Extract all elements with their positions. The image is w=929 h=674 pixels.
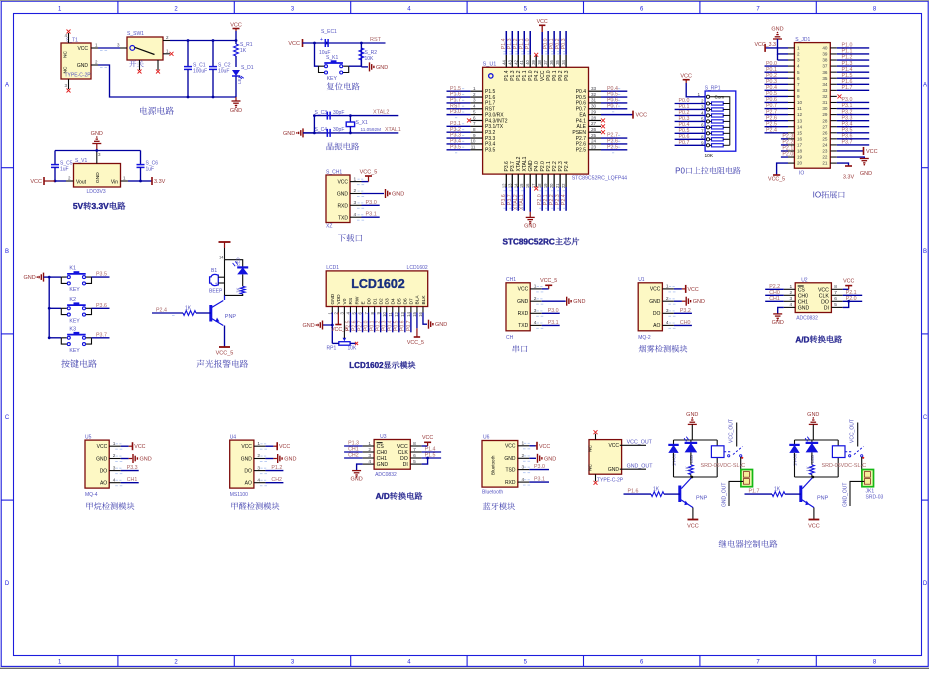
svg-text:3: 3 bbox=[257, 465, 260, 471]
pin 1 VCC bbox=[518, 445, 530, 447]
pin 5 DI bbox=[410, 463, 421, 465]
svg-text:GND: GND bbox=[241, 456, 253, 462]
svg-text:5: 5 bbox=[797, 70, 800, 75]
svg-text:24: 24 bbox=[591, 139, 597, 144]
svg-text:RP1: RP1 bbox=[327, 346, 337, 352]
svg-text:GND: GND bbox=[96, 456, 108, 462]
svg-text:2: 2 bbox=[790, 290, 793, 296]
JD1 pin 18 bbox=[788, 150, 794, 152]
ground GND top bbox=[809, 423, 818, 425]
pin 3 no-connect bottom of T1 bbox=[68, 79, 70, 89]
wire contact to connector bbox=[862, 457, 865, 473]
svg-text:D6: D6 bbox=[403, 298, 409, 304]
pin 1 stub bbox=[350, 181, 362, 183]
JD1 pin 30 bbox=[830, 108, 837, 110]
pin3 V0 to potentiometer bbox=[343, 313, 345, 338]
header S_JD1 IO expansion bbox=[794, 43, 830, 169]
base resistor 1K and net P1.7 bbox=[785, 493, 801, 495]
ground GND left bbox=[302, 128, 304, 137]
svg-text:VCC: VCC bbox=[636, 113, 648, 119]
svg-text:12: 12 bbox=[797, 112, 803, 117]
svg-text:TXD: TXD bbox=[338, 216, 348, 222]
connector S_CH1 download bbox=[326, 175, 350, 223]
svg-text:GND: GND bbox=[23, 275, 35, 281]
JD1 pin 28 bbox=[830, 120, 837, 122]
key K2 bbox=[49, 307, 61, 309]
connector S_T1 TYPE-C-2P bbox=[61, 43, 91, 79]
wire LED to resistor bbox=[242, 275, 244, 287]
capacitor S_C5 1uF bbox=[54, 151, 56, 165]
JD1 pin 20 bbox=[788, 162, 794, 164]
svg-text:P2.5: P2.5 bbox=[607, 144, 618, 150]
svg-text:VCC_5: VCC_5 bbox=[768, 177, 785, 183]
wire XTAL1 bottom bbox=[304, 132, 399, 134]
svg-text:P3.5: P3.5 bbox=[485, 148, 496, 154]
svg-text:XZ: XZ bbox=[326, 224, 332, 230]
svg-text:S_C4: S_C4 bbox=[315, 127, 328, 133]
svg-text:10: 10 bbox=[797, 100, 803, 105]
svg-text:1: 1 bbox=[697, 92, 700, 97]
svg-text:GND: GND bbox=[860, 171, 872, 177]
relay coil SRD-05VDC-SL-C bbox=[832, 446, 845, 458]
svg-text:D2: D2 bbox=[378, 298, 384, 304]
svg-text:22: 22 bbox=[822, 155, 828, 160]
svg-text:P1.0: P1.0 bbox=[525, 38, 531, 49]
svg-text:33: 33 bbox=[822, 88, 828, 93]
VCC_3.3 power at top-left pin1 bbox=[765, 47, 788, 49]
svg-text:GND: GND bbox=[350, 477, 362, 483]
svg-text:D0: D0 bbox=[366, 298, 372, 304]
svg-text:P3.7: P3.7 bbox=[842, 140, 853, 146]
svg-text:18: 18 bbox=[797, 149, 803, 154]
JD1 pin 39 bbox=[830, 53, 837, 55]
svg-text:1: 1 bbox=[534, 284, 537, 290]
pin15 BLA to VCC_5 bbox=[416, 313, 418, 329]
JD1 pin 24 bbox=[830, 144, 837, 146]
svg-text:GND: GND bbox=[284, 457, 296, 463]
pin 8 VCC wire bbox=[422, 445, 428, 447]
wire net P0.6 bbox=[404, 313, 406, 333]
pin 3 TSD bbox=[518, 469, 530, 471]
VCC wire to common pin bbox=[686, 83, 705, 97]
pin22 wire to GND right bbox=[837, 157, 865, 158]
svg-text:B: B bbox=[5, 249, 9, 255]
pin 3 DO bbox=[662, 312, 674, 314]
svg-text:GND_OUT: GND_OUT bbox=[843, 483, 849, 507]
svg-text:VCC: VCC bbox=[134, 444, 145, 450]
svg-text:14: 14 bbox=[219, 255, 224, 260]
svg-text:LCD1602: LCD1602 bbox=[349, 361, 384, 370]
svg-text:P2.4: P2.4 bbox=[564, 161, 570, 172]
svg-text:5V: 5V bbox=[73, 201, 84, 211]
wire contact to connector bbox=[741, 457, 744, 473]
svg-text:3.3V: 3.3V bbox=[154, 179, 166, 185]
pin 6 DO wire net P2.0 bbox=[843, 300, 863, 302]
svg-text:37: 37 bbox=[822, 64, 828, 69]
pin 2 CH0 bbox=[363, 451, 375, 453]
methane detector module U5 MQ-4 bbox=[85, 434, 152, 509]
svg-text:Vout: Vout bbox=[76, 180, 87, 186]
ground GND top bbox=[688, 423, 697, 425]
svg-text:NC: NC bbox=[588, 445, 594, 452]
svg-text:S_V1: S_V1 bbox=[75, 158, 87, 164]
svg-text:GND: GND bbox=[649, 299, 661, 305]
svg-text:GND: GND bbox=[524, 224, 536, 230]
switch pin right top to rail bbox=[163, 40, 170, 42]
svg-text:38: 38 bbox=[822, 58, 828, 63]
svg-text:VCC: VCC bbox=[230, 23, 242, 29]
svg-text:DO: DO bbox=[400, 456, 408, 462]
svg-text:VCC_3.3: VCC_3.3 bbox=[755, 42, 777, 48]
svg-text:VCC_5: VCC_5 bbox=[216, 351, 234, 357]
green connector bbox=[741, 470, 753, 487]
svg-text:A/D: A/D bbox=[795, 335, 809, 344]
relay LED bbox=[690, 440, 692, 443]
svg-text:4: 4 bbox=[790, 302, 793, 308]
network resistor element 5 net P0.3 bbox=[675, 120, 706, 122]
svg-text:3: 3 bbox=[701, 104, 704, 109]
svg-text:P0.7: P0.7 bbox=[679, 140, 690, 146]
connector TYPE-C-2P output bbox=[589, 440, 622, 475]
svg-text:P0.7: P0.7 bbox=[607, 103, 618, 109]
svg-text:27: 27 bbox=[822, 124, 828, 129]
svg-text:44: 44 bbox=[501, 59, 506, 64]
JD1 pin 34 bbox=[830, 83, 837, 85]
svg-text:MQ-2: MQ-2 bbox=[638, 335, 651, 341]
svg-text:V0: V0 bbox=[342, 298, 348, 304]
power bar GND top bbox=[219, 241, 231, 243]
wire relay common up VCC_OUT bbox=[857, 423, 859, 447]
JD1 pin 6 bbox=[788, 77, 794, 79]
title 按键电路 bbox=[61, 359, 96, 367]
wire top rail switch to VCC node bbox=[170, 40, 236, 42]
svg-text:S_D1: S_D1 bbox=[241, 65, 254, 71]
svg-text:3: 3 bbox=[666, 308, 669, 314]
pin 7 CLK bbox=[410, 451, 421, 453]
switch bottom pins no-connect bbox=[139, 60, 141, 70]
svg-text:+: + bbox=[215, 281, 218, 286]
svg-text:S_SW1: S_SW1 bbox=[127, 31, 144, 37]
base resistor 1K bbox=[196, 312, 211, 314]
GND power at top-left bbox=[773, 38, 782, 40]
svg-text:GND: GND bbox=[330, 293, 336, 304]
green connector bbox=[862, 470, 874, 487]
svg-text:LED: LED bbox=[236, 257, 241, 266]
svg-text:RXD: RXD bbox=[505, 480, 516, 486]
svg-text:K3: K3 bbox=[69, 326, 76, 332]
svg-text:GND: GND bbox=[608, 467, 620, 473]
svg-text:NC: NC bbox=[63, 66, 69, 73]
network resistor element 9 net P0.7 bbox=[675, 144, 706, 146]
JD1 pin 25 bbox=[830, 138, 837, 140]
svg-text:3.3V: 3.3V bbox=[843, 175, 855, 181]
relay switch contact bbox=[728, 455, 730, 457]
svg-text:2: 2 bbox=[354, 188, 357, 194]
wire XTAL2 top bbox=[314, 115, 398, 117]
pin 1 VCC bbox=[530, 288, 542, 290]
svg-text:P3.3: P3.3 bbox=[127, 465, 138, 471]
svg-text:TYPE-C-2P: TYPE-C-2P bbox=[597, 478, 624, 484]
svg-text:15: 15 bbox=[797, 130, 803, 135]
svg-text:35: 35 bbox=[555, 59, 560, 64]
pin 7 CLK bbox=[831, 294, 842, 296]
svg-text:GND: GND bbox=[91, 131, 103, 137]
JD1 pin 16 bbox=[788, 138, 794, 140]
pin2 wire to GND bbox=[362, 193, 385, 195]
svg-text:CH1: CH1 bbox=[798, 299, 808, 305]
svg-text:32: 32 bbox=[822, 94, 828, 99]
network resistor element 7 net P0.5 bbox=[675, 132, 706, 134]
svg-text:1: 1 bbox=[666, 284, 669, 290]
svg-text:NC: NC bbox=[63, 51, 69, 58]
svg-text:LCD1602: LCD1602 bbox=[407, 265, 428, 271]
pin 4 TXD bbox=[530, 324, 542, 326]
svg-text:GND: GND bbox=[693, 299, 705, 305]
pin 3 CH1 bbox=[363, 457, 375, 459]
svg-text:34: 34 bbox=[561, 59, 566, 64]
svg-text:P2.4: P2.4 bbox=[561, 194, 567, 205]
ground GND left bbox=[43, 273, 45, 282]
svg-text:VCC_5: VCC_5 bbox=[360, 170, 378, 176]
svg-text:LDO3V3: LDO3V3 bbox=[87, 189, 106, 195]
JD1 pin 9 bbox=[788, 95, 794, 97]
network resistor element 8 net P0.6 bbox=[675, 138, 706, 140]
svg-text:P1.7: P1.7 bbox=[842, 85, 853, 91]
svg-text:5: 5 bbox=[701, 116, 704, 121]
svg-text:Bluetooth: Bluetooth bbox=[491, 455, 496, 475]
resistor network S_RP1 bbox=[705, 91, 736, 151]
svg-text:D1: D1 bbox=[372, 298, 378, 304]
JD1 pin 27 bbox=[830, 126, 837, 128]
svg-text:38: 38 bbox=[537, 59, 542, 64]
svg-text:DO: DO bbox=[244, 468, 252, 474]
svg-text:D: D bbox=[5, 581, 10, 587]
wire net P0.5 bbox=[398, 313, 400, 333]
svg-text:+: + bbox=[320, 37, 323, 43]
svg-text:5: 5 bbox=[473, 109, 476, 114]
svg-text:GND_OUT: GND_OUT bbox=[722, 483, 728, 507]
svg-text:13: 13 bbox=[797, 118, 803, 123]
svg-text:P3.0: P3.0 bbox=[450, 109, 461, 115]
pin1 GND wire bbox=[323, 313, 333, 326]
bottom rail bbox=[795, 476, 839, 478]
svg-text:25: 25 bbox=[822, 136, 828, 141]
JD1 pin 33 bbox=[830, 89, 837, 91]
svg-text:29: 29 bbox=[591, 109, 597, 114]
svg-text:P2.4: P2.4 bbox=[766, 127, 777, 133]
svg-text:25: 25 bbox=[591, 133, 597, 138]
svg-text:BEEP: BEEP bbox=[209, 289, 223, 295]
bluetooth module U6 bbox=[482, 435, 556, 510]
svg-text:GND: GND bbox=[772, 320, 784, 326]
svg-text:TSD: TSD bbox=[506, 467, 516, 473]
svg-text:10K: 10K bbox=[348, 346, 358, 352]
wire net P0.3 bbox=[386, 313, 388, 333]
svg-text:32: 32 bbox=[591, 92, 597, 97]
switch pin right bottom no-connect bbox=[163, 53, 170, 55]
wire to net P3.6 bbox=[92, 307, 110, 309]
svg-text:2: 2 bbox=[666, 296, 669, 302]
svg-text:VCC: VCC bbox=[688, 287, 699, 293]
svg-text:GND: GND bbox=[807, 412, 819, 418]
vertical bus bbox=[48, 277, 50, 338]
svg-text:P3.1: P3.1 bbox=[534, 477, 545, 483]
ADC U2 ADC0832 bbox=[795, 283, 831, 313]
svg-text:VCC: VCC bbox=[608, 443, 619, 449]
svg-text:S_U1: S_U1 bbox=[483, 62, 497, 68]
svg-text:VCC: VCC bbox=[680, 74, 692, 80]
svg-text:GND: GND bbox=[95, 172, 101, 183]
svg-text:3: 3 bbox=[368, 453, 371, 459]
svg-text:U4: U4 bbox=[230, 434, 237, 440]
svg-text:RS: RS bbox=[348, 298, 354, 305]
svg-text:TYPE-C-2P: TYPE-C-2P bbox=[65, 73, 92, 79]
svg-text:SRD-05VDC-SL-C: SRD-05VDC-SL-C bbox=[822, 463, 867, 469]
svg-text:42: 42 bbox=[513, 59, 518, 64]
svg-text:40: 40 bbox=[525, 59, 530, 64]
JD1 pin 1 bbox=[788, 47, 794, 49]
svg-text:6: 6 bbox=[413, 453, 416, 459]
svg-text:28: 28 bbox=[822, 118, 828, 123]
svg-text:CH: CH bbox=[506, 335, 514, 341]
JD1 pin 8 bbox=[788, 89, 794, 91]
svg-text:U6: U6 bbox=[483, 435, 490, 441]
wire net P2.7 bbox=[362, 313, 364, 333]
pin 4 AO bbox=[662, 324, 674, 326]
svg-text:P2.4: P2.4 bbox=[156, 308, 167, 314]
svg-text:CH2: CH2 bbox=[271, 477, 282, 483]
svg-text:9: 9 bbox=[473, 133, 476, 138]
svg-text:STC89C52RC: STC89C52RC bbox=[502, 238, 554, 247]
svg-text:1K: 1K bbox=[653, 487, 660, 493]
svg-text:8: 8 bbox=[701, 134, 704, 139]
formaldehyde detector module U4 MS1100 bbox=[230, 434, 297, 509]
svg-text:30pF: 30pF bbox=[333, 127, 344, 133]
svg-text:CH1: CH1 bbox=[769, 296, 780, 302]
svg-text:24: 24 bbox=[822, 143, 828, 148]
svg-text:7: 7 bbox=[701, 128, 704, 133]
svg-text:AO: AO bbox=[100, 481, 107, 487]
svg-text:2: 2 bbox=[473, 92, 476, 97]
svg-text:DI: DI bbox=[403, 462, 408, 468]
svg-text:AO: AO bbox=[245, 481, 252, 487]
svg-text:P3.0: P3.0 bbox=[366, 200, 377, 206]
svg-text:VCC: VCC bbox=[518, 287, 529, 293]
capacitor S_C6 1uF bbox=[140, 151, 142, 165]
svg-text:P3.0: P3.0 bbox=[534, 464, 545, 470]
svg-text:PNP: PNP bbox=[696, 496, 708, 502]
wire net P0.2 bbox=[380, 313, 382, 333]
pin 7 CLK wire net P1.4 bbox=[422, 451, 442, 453]
JD1 pin 35 bbox=[830, 77, 837, 79]
pin 6 DO bbox=[831, 300, 842, 302]
svg-text:VCC: VCC bbox=[30, 179, 42, 185]
pin 4 RXD bbox=[518, 481, 530, 483]
svg-text:DO: DO bbox=[821, 299, 829, 305]
svg-text:16: 16 bbox=[797, 136, 803, 141]
pin 1 VCC bbox=[662, 288, 674, 290]
svg-text:8: 8 bbox=[797, 88, 800, 93]
svg-text:1: 1 bbox=[473, 86, 476, 91]
pin3 wire net P3.0 bbox=[362, 204, 380, 206]
svg-text:IO: IO bbox=[799, 171, 804, 177]
svg-text:2: 2 bbox=[368, 447, 371, 453]
pin4 wire net P3.1 bbox=[362, 216, 380, 218]
MCU S_U1 STC89C52RC_LQFP44 body bbox=[483, 67, 589, 174]
svg-text:GND: GND bbox=[283, 131, 295, 137]
svg-text:2: 2 bbox=[797, 52, 800, 57]
svg-text:VCC_5: VCC_5 bbox=[407, 340, 424, 346]
pin 2 GND bbox=[662, 300, 674, 302]
regulator S_V1 LDO3V3 bbox=[74, 164, 121, 188]
svg-text:1N4007: 1N4007 bbox=[672, 451, 677, 466]
svg-text:4: 4 bbox=[113, 477, 116, 483]
svg-text:P3.6: P3.6 bbox=[96, 303, 107, 309]
pin 1 stub of T1 bbox=[91, 47, 98, 49]
pin 4 GND bbox=[363, 463, 375, 465]
JD1 pin 38 bbox=[830, 59, 837, 61]
svg-text:A: A bbox=[5, 83, 9, 89]
title 晶振电路 bbox=[327, 142, 360, 150]
svg-text:VCC: VCC bbox=[97, 444, 108, 450]
svg-text:VCC: VCC bbox=[808, 524, 820, 530]
switch S_SW1 bbox=[127, 37, 163, 60]
svg-text:ADC0832: ADC0832 bbox=[375, 472, 397, 478]
svg-text:3: 3 bbox=[790, 296, 793, 302]
network resistor element 4 net P0.2 bbox=[675, 114, 706, 116]
svg-text:26: 26 bbox=[591, 127, 597, 132]
svg-text:P3.1: P3.1 bbox=[366, 212, 377, 218]
transistor PNP relay driver bbox=[802, 477, 813, 489]
svg-text:GND: GND bbox=[377, 462, 389, 468]
title 甲烷检测模块 bbox=[86, 502, 134, 510]
JD1 pin 17 bbox=[788, 144, 794, 146]
pin 4 stub bbox=[350, 216, 362, 218]
svg-text:GND: GND bbox=[140, 457, 152, 463]
svg-text:S_X1: S_X1 bbox=[356, 120, 368, 126]
svg-text:8: 8 bbox=[834, 284, 837, 290]
svg-text:S_K1: S_K1 bbox=[326, 55, 338, 61]
svg-text:U2: U2 bbox=[801, 277, 808, 283]
svg-text:39: 39 bbox=[531, 59, 536, 64]
pin 1 CS bbox=[363, 445, 375, 447]
svg-text:P1.5: P1.5 bbox=[425, 453, 436, 459]
svg-text:VCC_OUT: VCC_OUT bbox=[627, 440, 653, 446]
pin VCC wire VCC_OUT bbox=[620, 444, 646, 446]
capacitor S_C2 10uF bbox=[212, 41, 214, 67]
svg-text:SRD-05VDC-SL-C: SRD-05VDC-SL-C bbox=[701, 463, 746, 469]
svg-text:1K: 1K bbox=[685, 466, 690, 471]
svg-text:4: 4 bbox=[354, 212, 357, 218]
title IO拓展口 bbox=[813, 191, 845, 200]
svg-text:BLA: BLA bbox=[415, 295, 421, 305]
svg-text:IO: IO bbox=[813, 191, 822, 200]
relay LED bbox=[811, 440, 813, 443]
resistor S_R1 1K bbox=[235, 31, 237, 44]
network resistor element 2 net P0.0 bbox=[675, 103, 706, 105]
pin 6 DO bbox=[410, 457, 421, 459]
svg-text:CH1: CH1 bbox=[127, 477, 138, 483]
svg-text:BLK: BLK bbox=[421, 295, 427, 305]
svg-text:GND: GND bbox=[798, 305, 810, 311]
key K3 bbox=[49, 337, 61, 339]
title 甲醛检测模块 bbox=[231, 502, 279, 510]
JD1 pin 7 bbox=[788, 83, 794, 85]
svg-text:P3.0: P3.0 bbox=[548, 308, 559, 314]
svg-text:2: 2 bbox=[534, 296, 537, 302]
JD1 pin 4 bbox=[788, 65, 794, 67]
key K1 bbox=[49, 276, 61, 278]
